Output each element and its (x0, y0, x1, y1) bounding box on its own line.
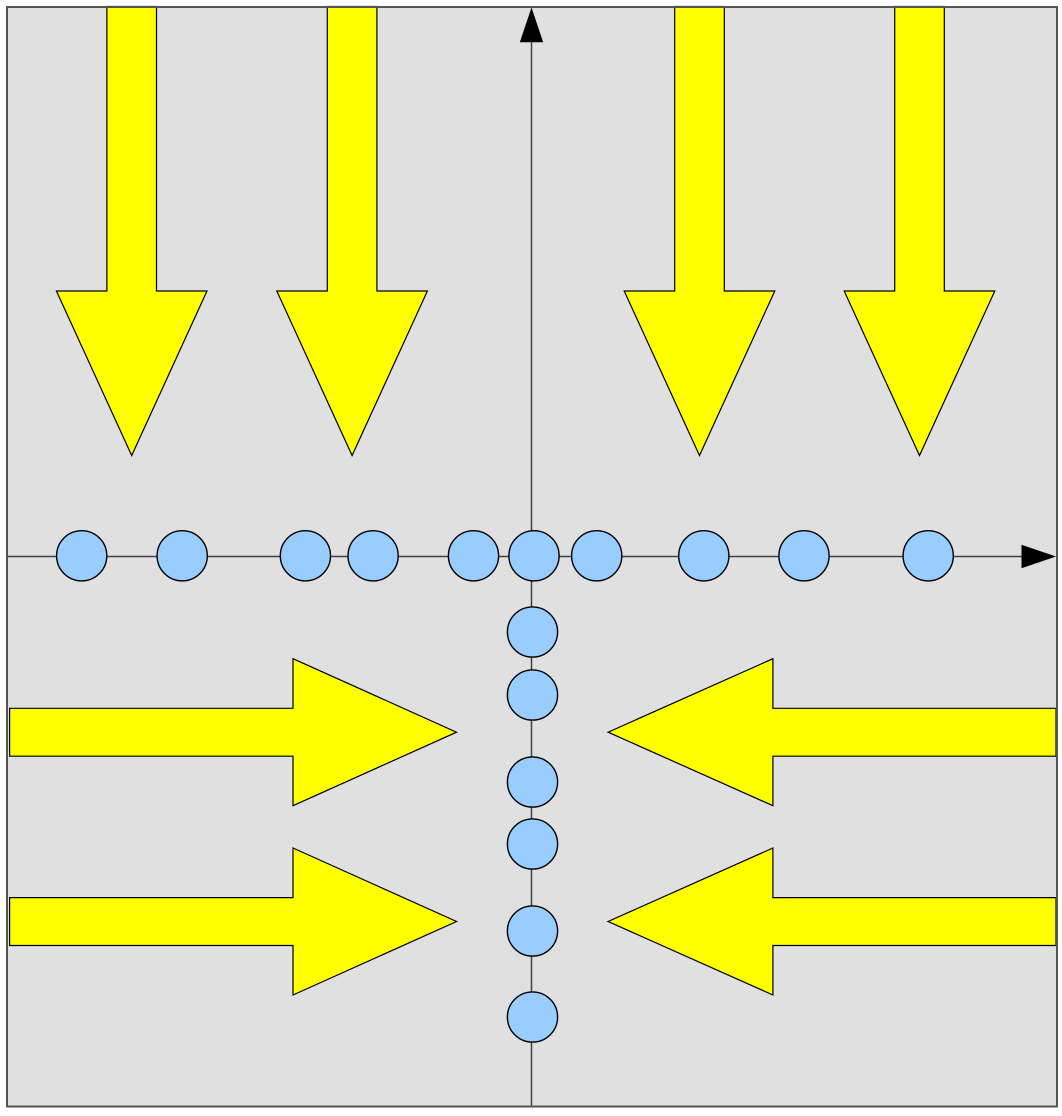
blue circle y-axis 4 (507, 819, 557, 869)
yellow left arrow lower-right (608, 848, 1056, 995)
blue circle x-axis 5 (448, 531, 498, 581)
blue circle x-axis 8 (679, 531, 729, 581)
horizontal axis arrowhead (1022, 545, 1057, 569)
yellow down arrow 1 (56, 7, 207, 456)
blue circle x-axis 10 (903, 531, 953, 581)
horizontal axis line (7, 556, 1030, 558)
blue circle x-axis 3 (280, 531, 330, 581)
yellow left arrow upper-right (608, 659, 1056, 806)
blue circle y-axis 2 (507, 670, 557, 720)
vertical axis arrowhead (520, 8, 543, 43)
blue circle y-axis 6 (507, 992, 557, 1042)
yellow down arrow 3 (624, 7, 775, 456)
blue circle y-axis 1 (507, 607, 557, 657)
blue circle x-axis 7 (572, 531, 622, 581)
yellow down arrow 2 (277, 7, 428, 456)
blue circle x-axis 4 (348, 531, 398, 581)
vertical axis line (531, 30, 533, 1106)
blue circle y-axis 3 (507, 757, 557, 807)
blue circle x-axis 2 (157, 531, 207, 581)
blue circle x-axis 1 (57, 531, 107, 581)
yellow right arrow upper-left (10, 659, 457, 806)
yellow right arrow lower-left (10, 848, 457, 995)
blue circle x-axis 9 (779, 531, 829, 581)
blue circle y-axis 5 (507, 906, 557, 956)
yellow down arrow 4 (844, 7, 995, 456)
blue circle origin (509, 531, 559, 581)
